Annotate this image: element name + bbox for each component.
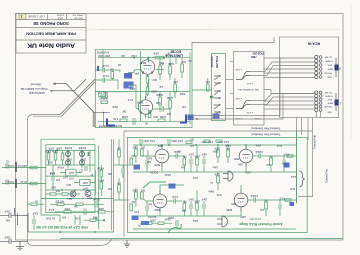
svg-text:0.1uF: 0.1uF — [102, 74, 109, 78]
wire PSU low rail — [46, 189, 95, 191]
resistor R7 — [158, 92, 163, 113]
svg-text:6u8: 6u8 — [147, 203, 152, 206]
svg-text:47uF 400V: 47uF 400V — [96, 51, 109, 54]
svg-text:LM1: LM1 — [68, 171, 74, 175]
svg-text:100K: 100K — [132, 189, 138, 192]
svg-text:10uF: 10uF — [4, 210, 10, 213]
capacitor C36 V5 out — [253, 150, 267, 159]
svg-text:6DJ8: 6DJ8 — [140, 61, 146, 64]
resistor R42 out L — [265, 199, 268, 217]
svg-text:CD INP: CD INP — [324, 55, 332, 57]
wire PSU right double rail — [95, 146, 98, 230]
resistor R6b cathode chain — [146, 83, 157, 96]
transistor Q2 half-moon — [223, 171, 233, 181]
svg-text:180K: 180K — [194, 200, 200, 203]
svg-text:5687: 5687 — [233, 157, 239, 160]
svg-text:2W2: 2W2 — [51, 186, 56, 188]
resistor R47 left edge — [130, 154, 135, 165]
svg-text:47uF: 47uF — [279, 197, 285, 200]
svg-text:Fine 7V: Fine 7V — [99, 91, 108, 95]
capacitor C3 coupling — [156, 58, 176, 70]
svg-text:ECC88: ECC88 — [171, 49, 182, 53]
resistor R23 bottom — [50, 200, 72, 206]
annotation blue mark B — [124, 82, 134, 89]
svg-text:47uF: 47uF — [276, 144, 282, 146]
resistor R21 — [52, 150, 58, 166]
phono enclosure outline — [124, 131, 312, 237]
resistor R26 row2b — [95, 207, 114, 213]
svg-text:ECC83: ECC83 — [150, 171, 158, 174]
svg-text:BY255: BY255 — [78, 146, 86, 149]
capacitor C38 right — [283, 153, 289, 173]
svg-text:450V 10W: 450V 10W — [98, 54, 110, 57]
svg-text:PCB-090: PCB-090 — [249, 217, 261, 221]
svg-text:Audio Note UK: Audio Note UK — [27, 41, 75, 48]
capacitor C34 net L — [188, 198, 194, 217]
resistor R25 row2 — [55, 207, 80, 213]
resistor R46 top edge — [186, 138, 194, 144]
relay RL1 contacts — [214, 75, 220, 86]
resistor R1 grid leak — [110, 67, 114, 80]
wire fan R inputs — [250, 58, 315, 78]
wire tape loop bus upper — [188, 58, 285, 116]
resistor R22 — [61, 151, 64, 166]
svg-text:1M: 1M — [132, 200, 135, 203]
capacitor C20 — [49, 165, 55, 190]
svg-text:PRE CAP I/P PCB-080 ISS 4/2 9W: PRE CAP I/P PCB-080 ISS 4/2 9W — [35, 225, 87, 229]
wire drop inside linestage — [93, 112, 110, 114]
svg-text:220K: 220K — [157, 144, 163, 146]
selector PCB-205 outline — [234, 51, 265, 125]
wire selector input R — [226, 79, 234, 81]
left margin capacitor group 2 — [0, 236, 28, 249]
svg-text:5mV: 5mV — [290, 187, 295, 190]
wire mid rail linestage — [95, 91, 190, 93]
svg-text:FIRST ISS: FIRST ISS — [72, 14, 83, 16]
svg-text:PCB-205: PCB-205 — [215, 56, 219, 68]
svg-text:RIAA: RIAA — [208, 190, 214, 193]
svg-text:100R: 100R — [122, 115, 128, 119]
capacitor C32 RIAA net — [188, 153, 194, 173]
wire RIAA mid rail R — [133, 171, 296, 173]
svg-text:1kHz: 1kHz — [237, 163, 243, 165]
capacitor C21 — [85, 166, 87, 171]
svg-text:1N40: 1N40 — [66, 158, 72, 160]
svg-text:47uF: 47uF — [127, 98, 133, 100]
ground symbol bottom — [124, 240, 130, 247]
diode D11 — [67, 161, 70, 169]
svg-text:10nF: 10nF — [188, 198, 194, 201]
svg-text:120V: 120V — [240, 215, 246, 218]
capacitor C2 input lower — [95, 74, 112, 83]
resistor R40 — [214, 172, 220, 190]
resistor R20 — [45, 150, 51, 166]
svg-text:2K2: 2K2 — [166, 112, 171, 114]
ECC88 line stage PCB outline — [95, 50, 192, 128]
capacitor C1 input — [95, 64, 112, 73]
resistor R34 RIAA net — [182, 155, 187, 173]
faint scan edge right — [350, 4, 352, 140]
wire B+ rail linestage — [98, 57, 190, 59]
svg-text:OUT: OUT — [87, 196, 92, 198]
regulator U2 — [74, 179, 95, 185]
linestage dense label sprinkle — [118, 52, 185, 115]
svg-text:Twisted Pair: Twisted Pair — [313, 135, 317, 149]
resistor R41 out R — [270, 155, 273, 173]
valve V3 — [155, 145, 169, 167]
svg-text:GND: GND — [327, 110, 332, 112]
svg-text:150R: 150R — [112, 105, 118, 107]
resistor R9 tail — [148, 111, 158, 119]
resistor R11 lower left — [99, 91, 108, 104]
capacitor C60 left margin — [5, 160, 14, 169]
svg-text:630V: 630V — [179, 92, 185, 94]
wire PSU right outer — [113, 139, 115, 232]
capacitor C52 left edge — [146, 156, 152, 172]
svg-text:150K: 150K — [64, 207, 70, 210]
capacitor C61 left margin — [6, 180, 14, 185]
svg-text:6u8: 6u8 — [147, 157, 152, 160]
relay RL1b contacts — [214, 90, 220, 98]
svg-text:100K: 100K — [168, 62, 174, 66]
svg-text:GND: GND — [327, 75, 332, 77]
transistor Q1 — [85, 191, 91, 197]
svg-text:47uF: 47uF — [131, 54, 137, 58]
wire jack column downleads — [316, 112, 320, 118]
wire PSU mid rail 2 — [46, 175, 95, 177]
svg-text:EF86: EF86 — [226, 208, 232, 210]
annotation blue corner mark bottom-left — [107, 119, 115, 126]
resistor R24 bottom — [72, 203, 90, 206]
svg-text:RALV3L: RALV3L — [210, 56, 214, 67]
wire grid feed V1 — [112, 70, 141, 73]
junction heavy dot — [103, 219, 105, 221]
svg-text:1K: 1K — [35, 200, 38, 203]
wire grid V4 — [143, 199, 153, 201]
svg-text:TUNER: TUNER — [325, 59, 333, 61]
annotation blue marks riaa bottom — [132, 216, 139, 221]
wire RIAA top rail — [133, 144, 296, 146]
valve V4 — [153, 190, 167, 212]
svg-text:1M: 1M — [110, 67, 114, 71]
wire V5 input — [267, 155, 297, 157]
svg-text:27/2/02: 27/2/02 — [56, 14, 64, 16]
valve V6 — [234, 189, 248, 211]
resistor R35 RIAA net — [194, 145, 200, 172]
riaa dense label sprinkle — [154, 144, 296, 222]
resistor R31 — [140, 146, 145, 157]
capacitor C53 left edge low — [146, 201, 152, 216]
svg-text:OUT: OUT — [63, 176, 68, 178]
svg-text:220R: 220R — [52, 150, 58, 153]
svg-text:PHONO: PHONO — [324, 105, 332, 107]
wire selector input L — [226, 108, 234, 110]
svg-text:1: 1 — [21, 14, 23, 18]
diode D1 — [210, 96, 214, 99]
svg-text:(Stereo): (Stereo) — [31, 82, 42, 86]
svg-text:6K8: 6K8 — [92, 216, 97, 219]
RCA jack group R — [315, 55, 333, 78]
svg-text:220K: 220K — [129, 87, 135, 90]
node junction dots — [133, 57, 135, 59]
faint scan streak top — [30, 29, 340, 31]
svg-text:100K: 100K — [167, 96, 173, 100]
node label M1 — [188, 115, 199, 121]
svg-text:Output to SORO SE: Output to SORO SE — [21, 87, 48, 91]
capacitor C23 row2 — [80, 209, 95, 216]
svg-text:6DJ8: 6DJ8 — [137, 101, 143, 104]
svg-text:47uF: 47uF — [49, 171, 55, 173]
wire left vertical drops — [18, 213, 28, 232]
svg-text:IN: IN — [90, 173, 93, 176]
svg-text:820R: 820R — [154, 163, 160, 165]
left feed label block 1 — [2, 162, 46, 172]
svg-text:337T: 337T — [82, 187, 88, 190]
resistor R33 — [140, 189, 145, 200]
wire input column — [102, 50, 104, 70]
svg-text:220K: 220K — [151, 89, 157, 93]
green squiggle bottom — [168, 224, 181, 233]
svg-text:0V: 0V — [138, 224, 141, 227]
resistor R4 — [168, 58, 174, 80]
svg-text:4K7: 4K7 — [159, 62, 164, 66]
wire PSU top rail — [46, 150, 95, 152]
svg-text:PRE AMPLIFIER SECTION: PRE AMPLIFIER SECTION — [26, 31, 76, 36]
svg-text:75K: 75K — [182, 155, 187, 158]
svg-text:100uF: 100uF — [93, 198, 100, 201]
RCA IN panel outline — [280, 37, 339, 118]
diode D14 — [87, 152, 90, 156]
svg-text:1uF: 1uF — [158, 85, 163, 87]
svg-text:715K: 715K — [216, 193, 222, 195]
svg-text:AUX: AUX — [327, 63, 332, 66]
svg-text:100R: 100R — [48, 146, 54, 148]
svg-text:0.1uF: 0.1uF — [171, 195, 178, 198]
svg-text:3K3: 3K3 — [55, 189, 60, 192]
resistor R12 bottom row — [120, 115, 128, 122]
svg-text:10K: 10K — [120, 54, 125, 56]
svg-text:o 1,5V: o 1,5V — [246, 82, 253, 84]
svg-text:100uF: 100uF — [164, 173, 171, 175]
svg-text:75K: 75K — [182, 200, 187, 203]
svg-text:0V AC: 0V AC — [20, 180, 27, 183]
svg-text:47K: 47K — [189, 144, 194, 146]
svg-text:2K7: 2K7 — [189, 138, 194, 141]
svg-text:0.1uF: 0.1uF — [225, 144, 231, 146]
ground symbol left bottom — [16, 247, 24, 251]
svg-text:TAPE: TAPE — [327, 67, 333, 70]
wire linestage to relay R — [192, 89, 212, 91]
wire tape output bus top — [192, 37, 274, 49]
svg-text:1M: 1M — [118, 63, 121, 65]
capacitor C30 coupling R — [169, 150, 184, 159]
diode D13 — [81, 161, 84, 169]
svg-text:6.3V: 6.3V — [75, 217, 80, 220]
wire RIAA right rail — [296, 130, 298, 203]
svg-text:PHONO: PHONO — [324, 71, 332, 73]
resistor R3 anode — [159, 58, 164, 80]
capacitor C22 bottom — [90, 198, 104, 208]
green highlight wire riaa — [143, 182, 166, 188]
svg-text:V1b: V1b — [156, 101, 161, 105]
svg-text:22K: 22K — [107, 172, 112, 175]
svg-text:o 1,5V: o 1,5V — [246, 111, 253, 113]
wire V6 input — [262, 199, 297, 201]
svg-text:47uF 400V: 47uF 400V — [143, 139, 155, 142]
node marker R channel — [335, 58, 342, 77]
PSU PCB-080 outline — [46, 145, 95, 213]
capacitor C5 bottom — [133, 118, 135, 125]
resistor R48 left edge low — [130, 200, 135, 211]
svg-text:1M: 1M — [182, 60, 186, 64]
svg-text:R: R — [339, 67, 341, 71]
wire right rail linestage — [189, 52, 191, 124]
svg-text:0V: 0V — [145, 122, 148, 125]
svg-text:478: 478 — [55, 178, 60, 181]
capacitor C33 RIAA net — [201, 153, 207, 173]
svg-text:220R: 220R — [45, 150, 51, 153]
svg-text:CD INP: CD INP — [324, 91, 332, 93]
svg-text:6.3V: 6.3V — [134, 210, 139, 213]
wire grid column — [140, 51, 142, 121]
svg-text:1kHz: 1kHz — [212, 166, 218, 169]
junction dots top rail riaa — [140, 144, 142, 146]
svg-text:Twisted Pair Shielded: Twisted Pair Shielded — [251, 127, 280, 131]
svg-text:Anode Follower RIAA Stage: Anode Follower RIAA Stage — [239, 222, 283, 226]
svg-text:150K: 150K — [255, 144, 261, 146]
svg-text:820R: 820R — [154, 208, 160, 210]
svg-text:180K: 180K — [194, 155, 200, 158]
wire cable shield outline — [28, 115, 112, 246]
capacitor C4 out — [153, 107, 170, 112]
resistor R44 grid stopper — [287, 155, 293, 157]
valve V1 ECC88 — [140, 58, 164, 77]
svg-text:SORO PHONO SE: SORO PHONO SE — [33, 21, 69, 26]
svg-text:RCA IN: RCA IN — [307, 41, 320, 45]
annotation blue mark relay — [213, 114, 220, 119]
svg-text:6.3V: 6.3V — [113, 117, 118, 120]
resistor R43 feed top — [204, 140, 222, 142]
node output-to-amp labels — [21, 81, 56, 95]
svg-text:0.22uF: 0.22uF — [255, 150, 263, 153]
svg-text:Input: Input — [291, 175, 296, 178]
annotation blue corner mark top-left — [97, 66, 99, 71]
svg-text:PCB-205: PCB-205 — [252, 51, 264, 55]
svg-text:DATE: DATE — [57, 16, 63, 19]
svg-text:47uF 400V: 47uF 400V — [171, 139, 183, 142]
svg-text:AMPLIFIER: AMPLIFIER — [28, 91, 45, 95]
svg-text:2K2: 2K2 — [153, 115, 158, 119]
relay PCB RALV3L outline — [210, 54, 226, 121]
transistor Q10 — [65, 151, 70, 156]
svg-text:100uF: 100uF — [164, 218, 171, 220]
svg-text:o 1,5V: o 1,5V — [235, 97, 242, 99]
resistor R2 on rail — [155, 56, 164, 59]
svg-text:2K2: 2K2 — [140, 189, 145, 192]
wire RIAA bottom rail — [133, 228, 296, 230]
wire PSU verticals — [74, 151, 90, 173]
svg-text:ECC83: ECC83 — [148, 215, 156, 218]
wire PSU outer rail — [41, 139, 95, 215]
resistor R5 grid — [181, 58, 186, 78]
svg-text:6u8: 6u8 — [146, 160, 151, 163]
capacitor C39 right low — [279, 197, 285, 217]
svg-text:0.22uF: 0.22uF — [250, 194, 258, 197]
capacitor C31 coupling L — [167, 195, 182, 204]
resistor R37 net L — [194, 190, 200, 216]
wire RCA phono downleads — [297, 118, 309, 204]
capacitor C51 top edge — [168, 139, 183, 145]
switch SW1b wipers — [235, 97, 253, 113]
svg-text:120V: 120V — [245, 171, 251, 174]
svg-text:1M: 1M — [132, 154, 135, 157]
svg-text:150K: 150K — [98, 207, 104, 210]
regulator U3 small yellow — [99, 92, 106, 97]
svg-text:ADJ: ADJ — [68, 197, 72, 200]
capacitor C37 V6 out — [248, 194, 262, 203]
wire PSU bottom rows — [41, 198, 114, 200]
svg-text:Twisted Pair Shielded: Twisted Pair Shielded — [251, 133, 280, 137]
wire tape loop bus lower — [188, 94, 287, 120]
svg-text:100R: 100R — [160, 115, 166, 119]
switch SW1a wipers — [235, 68, 253, 84]
wire RIAA mid rail L — [133, 215, 230, 217]
svg-text:470uF: 470uF — [57, 166, 64, 169]
resistor R10 output — [173, 78, 178, 98]
resistor R45 grid stopper L — [285, 199, 291, 201]
valve V5 — [239, 145, 253, 167]
annotation blue dot right — [290, 202, 295, 206]
svg-text:10K: 10K — [205, 80, 210, 84]
svg-text:1 OF 1 ISSUE: 1 OF 1 ISSUE — [28, 14, 45, 18]
svg-text:220R: 220R — [153, 52, 159, 54]
svg-text:10K: 10K — [116, 182, 121, 185]
svg-text:10W: 10W — [47, 161, 53, 164]
transistor Q12 — [65, 160, 70, 165]
svg-text:B+ 210V: B+ 210V — [45, 217, 55, 220]
svg-text:47K: 47K — [181, 105, 186, 108]
svg-text:33nF: 33nF — [201, 198, 207, 201]
svg-text:AUX: AUX — [327, 98, 332, 101]
valve V2 ECC88 — [138, 96, 161, 118]
wire grid V3 — [141, 150, 155, 156]
relay RL2 contacts — [214, 104, 220, 115]
svg-text:22K: 22K — [107, 187, 112, 190]
wire grid feed V2 — [112, 80, 139, 109]
svg-text:(SEL JPUMPER SEL): (SEL JPUMPER SEL) — [237, 88, 259, 90]
node marker L channel — [335, 93, 342, 111]
capacitor C24 low left — [32, 212, 38, 231]
wire anode V3 to net — [160, 145, 184, 216]
svg-text:o/p: o/p — [188, 59, 192, 63]
svg-text:470uF: 470uF — [97, 167, 104, 170]
resistor R30 — [132, 145, 138, 163]
svg-text:ADJ: ADJ — [66, 183, 71, 186]
regulator U1 — [60, 169, 82, 176]
resistor R39 — [225, 145, 230, 163]
svg-text:2K2: 2K2 — [140, 146, 145, 149]
diode D12 — [81, 151, 84, 161]
blue mark riaa mid — [169, 184, 176, 189]
svg-text:4K7 2W: 4K7 2W — [55, 200, 64, 203]
wire anode V1 — [146, 58, 149, 98]
wire bottom bus green — [60, 238, 343, 240]
svg-text:100K: 100K — [132, 146, 138, 149]
svg-text:2K2: 2K2 — [152, 78, 157, 82]
wire cathode rail linestage — [98, 121, 190, 123]
svg-text:47uF: 47uF — [48, 208, 54, 210]
svg-text:BY255: BY255 — [64, 146, 72, 149]
